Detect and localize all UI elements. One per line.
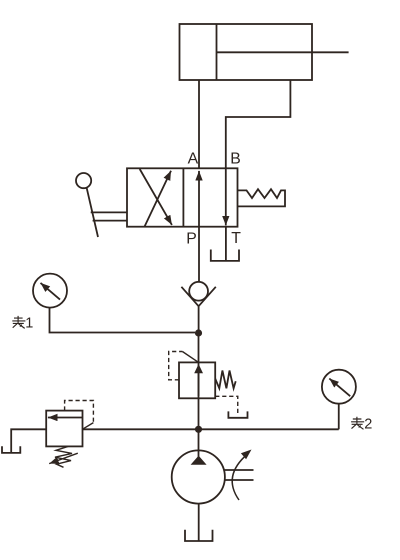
- relief valve R1 body: [179, 362, 215, 398]
- wire gauge 1 to node 1: [50, 308, 196, 333]
- relief valve R2 body: [46, 411, 82, 447]
- wire cap-side A line: [198, 80, 200, 168]
- node 1: [195, 329, 202, 336]
- node 2: [195, 426, 202, 433]
- svg-text:T: T: [231, 230, 241, 247]
- tank R2: [2, 446, 20, 453]
- label gauge 2: [351, 417, 364, 430]
- wire check valve to node 1: [198, 306, 200, 333]
- svg-text:2: 2: [364, 416, 372, 432]
- label gauge 1: [12, 316, 25, 329]
- relief valve R1 spring: [215, 371, 236, 389]
- wire gauge 2 stem: [338, 404, 340, 430]
- wire T to tank: [225, 227, 227, 261]
- lever link: [91, 212, 127, 220]
- relief valve R1 arrow: [198, 373, 200, 396]
- svg-text:P: P: [186, 230, 197, 247]
- valve body: [127, 168, 238, 226]
- pump compensator lines: [224, 470, 254, 480]
- valve return spring: [238, 189, 286, 206]
- valve crossed arrow 2: [140, 169, 172, 225]
- svg-text:A: A: [188, 151, 199, 168]
- wire node 1 to relief valve: [198, 333, 200, 429]
- tank T: [211, 250, 239, 261]
- lever knob: [76, 173, 91, 188]
- relief valve R1 pilot tap: [182, 352, 198, 363]
- cylinder piston: [216, 24, 218, 80]
- cylinder rod: [217, 51, 349, 53]
- wire pump suction: [198, 504, 200, 541]
- relief valve R2 spring: [55, 446, 72, 467]
- relief valve R2 adjust arrow: [49, 453, 78, 463]
- relief valve R2 pilot tap: [83, 423, 94, 430]
- pump P1: [172, 450, 225, 503]
- relief valve R1 drain line: [215, 396, 238, 415]
- relief valve R2 arrow: [48, 417, 82, 419]
- valve position divider: [182, 168, 184, 226]
- wire rod-side B line: [226, 80, 291, 168]
- wire node 2 to pump: [198, 429, 200, 457]
- valve arrow B to T: [225, 168, 227, 225]
- valve arrow P to A: [198, 171, 200, 227]
- svg-text:B: B: [230, 151, 241, 168]
- gauge 1: [33, 274, 67, 308]
- svg-text:1: 1: [25, 316, 33, 332]
- valve crossed arrow 1: [144, 171, 171, 227]
- cylinder body: [180, 24, 313, 80]
- check valve: [181, 282, 215, 306]
- relief valve R2 pilot line: [65, 401, 94, 423]
- wire P down: [198, 227, 200, 282]
- lever stick: [87, 188, 98, 237]
- pump variable arrow: [232, 450, 251, 501]
- gauge 2: [322, 370, 356, 404]
- wire main pressure line: [83, 428, 339, 430]
- relief valve R1 drain tank: [228, 411, 247, 417]
- wire R2 to tank: [11, 429, 46, 453]
- tank pump: [185, 530, 213, 541]
- relief valve R1 pilot line: [169, 352, 183, 380]
